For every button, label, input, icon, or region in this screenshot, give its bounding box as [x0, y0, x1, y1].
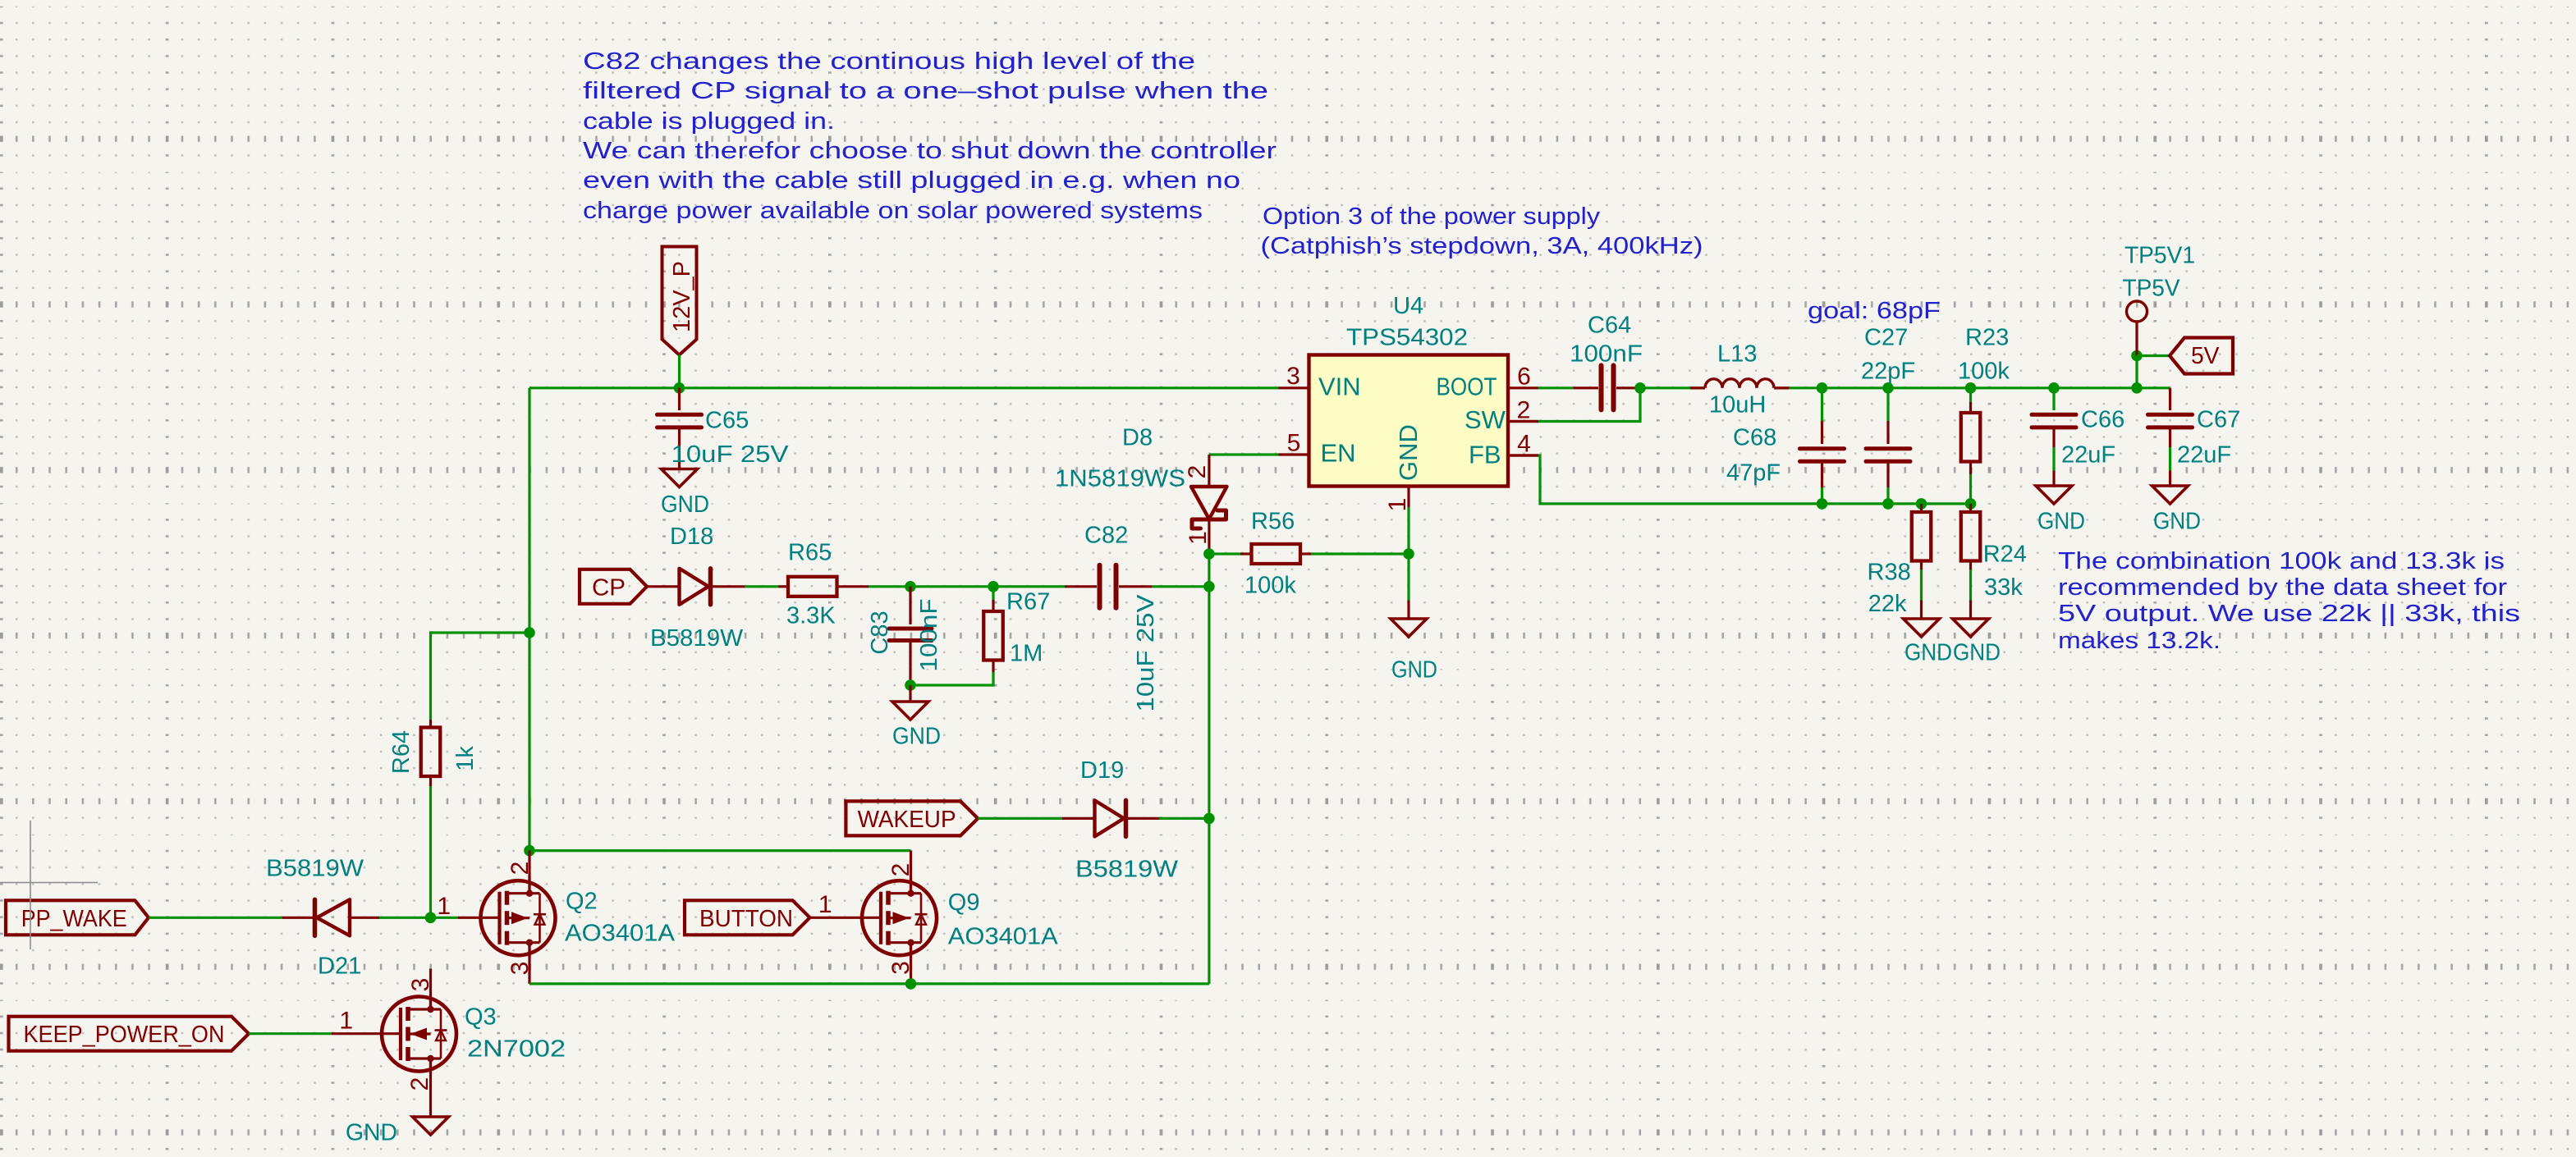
- wire BOOT: [1538, 386, 1573, 389]
- pin 2 Q3: [406, 1077, 433, 1091]
- svg-text:1: 1: [1185, 531, 1212, 545]
- svg-text:cable is plugged in.: cable is plugged in.: [583, 108, 835, 135]
- resistor R65: [779, 577, 869, 597]
- svg-text:R64: R64: [388, 730, 415, 774]
- junction C27 bottom: [1882, 498, 1894, 510]
- svg-text:B5819W: B5819W: [1075, 857, 1179, 883]
- svg-text:VIN: VIN: [1318, 373, 1361, 401]
- svg-text:B5819W: B5819W: [266, 856, 364, 882]
- note: option 3 power supply: [1261, 204, 1703, 259]
- svg-text:GND: GND: [1394, 424, 1423, 481]
- label D19: [1080, 757, 1124, 784]
- svg-text:C82 changes the continous high: C82 changes the continous high level of …: [583, 48, 1195, 75]
- wire 5V rail: [1822, 386, 2170, 389]
- pin EN: [1279, 430, 1356, 468]
- label C83 value: [916, 599, 942, 672]
- wire R64-gate node: [429, 786, 432, 917]
- ground Q3: [346, 1117, 449, 1146]
- svg-text:R65: R65: [788, 540, 832, 566]
- junction EN node: [1203, 581, 1215, 592]
- svg-text:2: 2: [406, 1077, 433, 1091]
- pin GND U4: [1384, 424, 1423, 511]
- svg-text:even with the cable still plug: even with the cable still plugged in e.g…: [583, 167, 1240, 194]
- svg-text:100k: 100k: [1244, 573, 1296, 599]
- label Q3 value: [467, 1036, 566, 1063]
- hier label KEEP_POWER_ON: [9, 1017, 250, 1051]
- label R67: [1006, 589, 1050, 615]
- wire R64 branch: [431, 633, 530, 720]
- label Q2: [566, 889, 598, 915]
- svg-text:Q2: Q2: [566, 889, 598, 915]
- svg-text:Q3: Q3: [465, 1004, 497, 1031]
- svg-text:R56: R56: [1251, 509, 1295, 535]
- wire left drop: [528, 388, 530, 851]
- svg-text:TPS54302: TPS54302: [1346, 325, 1468, 351]
- junction C83 gnd: [905, 679, 916, 691]
- pin 1 D8: [1185, 531, 1212, 545]
- junction R64 branch: [524, 627, 535, 638]
- label U4 value: [1346, 325, 1468, 351]
- junction C66 top: [2048, 382, 2060, 394]
- svg-text:1: 1: [1384, 498, 1411, 512]
- svg-text:C68: C68: [1733, 425, 1776, 451]
- pin 2 D8: [1184, 465, 1211, 479]
- label L13: [1717, 341, 1757, 368]
- label C67: [2197, 407, 2240, 433]
- testpoint TP5V1: [2127, 301, 2147, 356]
- junction D8-R56: [1203, 548, 1215, 560]
- svg-text:C82: C82: [1084, 523, 1128, 549]
- label C82: [1084, 523, 1128, 549]
- svg-text:GND: GND: [1953, 640, 2001, 666]
- label R56: [1251, 509, 1295, 535]
- diode D8 1N5819WS: [1191, 455, 1227, 554]
- capacitor C65: [658, 388, 702, 469]
- hier label WAKEUP: [846, 801, 978, 835]
- svg-text:D8: D8: [1122, 425, 1153, 451]
- svg-text:L13: L13: [1717, 341, 1757, 368]
- wire 5V label: [2137, 354, 2170, 357]
- label C68: [1733, 425, 1776, 451]
- svg-text:2: 2: [506, 862, 534, 876]
- ground R38: [1904, 619, 1953, 666]
- svg-text:SW: SW: [1464, 405, 1506, 434]
- resistor R23: [1961, 388, 1981, 504]
- label C64: [1588, 313, 1631, 339]
- wire VIN rail: [529, 386, 1279, 389]
- label U4: [1393, 293, 1423, 319]
- svg-text:C83: C83: [867, 611, 893, 654]
- pin BOOT: [1437, 364, 1539, 401]
- label R23: [1965, 325, 2009, 351]
- junction C27 top: [1882, 382, 1894, 394]
- svg-text:(Catphish’s stepdown, 3A, 400k: (Catphish’s stepdown, 3A, 400kHz): [1261, 233, 1703, 259]
- svg-text:BOOT: BOOT: [1437, 373, 1497, 401]
- svg-text:22uF: 22uF: [2177, 442, 2231, 469]
- junction R23 bottom: [1965, 498, 1977, 510]
- label Q2 value: [565, 921, 676, 947]
- resistor R67: [910, 587, 1003, 685]
- capacitor C67: [2148, 388, 2193, 471]
- junction Q2 drain: [524, 845, 535, 857]
- svg-text:100k: 100k: [1958, 359, 2010, 385]
- svg-text:KEEP_POWER_ON: KEEP_POWER_ON: [24, 1022, 225, 1048]
- svg-text:3: 3: [1286, 363, 1300, 390]
- svg-text:FB: FB: [1469, 441, 1501, 469]
- svg-text:GND: GND: [661, 492, 709, 518]
- svg-text:3: 3: [887, 961, 914, 975]
- resistor R64: [421, 720, 441, 786]
- svg-text:5V output. We use 22k || 33k,: 5V output. We use 22k || 33k, this: [2058, 601, 2520, 627]
- svg-text:3: 3: [407, 978, 434, 992]
- svg-text:5: 5: [1287, 430, 1301, 457]
- svg-text:C27: C27: [1864, 325, 1908, 351]
- label C65 value: [672, 441, 790, 468]
- svg-text:3: 3: [506, 962, 534, 976]
- svg-text:1k: 1k: [452, 746, 479, 771]
- resistor R56: [1209, 544, 1409, 564]
- svg-text:10uH: 10uH: [1709, 392, 1766, 418]
- svg-text:C65: C65: [705, 408, 749, 434]
- pin 1 Q3: [339, 1008, 353, 1035]
- label C67 value: [2177, 442, 2231, 469]
- svg-text:2N7002: 2N7002: [467, 1036, 566, 1063]
- svg-text:R67: R67: [1006, 589, 1050, 615]
- svg-text:B5819W: B5819W: [650, 625, 744, 652]
- svg-text:WAKEUP: WAKEUP: [858, 807, 956, 833]
- svg-text:D21: D21: [318, 953, 361, 980]
- junction R23 top: [1965, 382, 1977, 394]
- ground R24: [1953, 619, 2001, 666]
- wire L13 out: [1789, 386, 1822, 389]
- label R24 value: [1984, 574, 2023, 601]
- label D18 value: [650, 625, 744, 652]
- capacitor C68: [1800, 388, 1845, 504]
- label D19 value: [1075, 857, 1179, 883]
- wire Q2 top: [529, 849, 911, 852]
- diode D18: [647, 569, 745, 605]
- diode D19: [1062, 800, 1159, 836]
- wire WAKEUP: [978, 817, 1062, 820]
- wire D18-R65: [745, 585, 779, 588]
- wire FB net: [1508, 455, 1971, 504]
- label C83: [867, 611, 893, 654]
- label R38: [1868, 560, 1911, 586]
- hier label 5V: [2170, 338, 2233, 374]
- label D8 value: [1055, 466, 1185, 492]
- transistor Q9 AO3401A: [810, 851, 937, 984]
- note: C82 comment block: [583, 48, 1277, 224]
- svg-text:3.3K: 3.3K: [786, 603, 836, 629]
- label C64 value: [1570, 341, 1643, 368]
- origin crosshair: [0, 821, 98, 949]
- svg-text:GND: GND: [892, 724, 941, 750]
- svg-text:U4: U4: [1393, 293, 1423, 319]
- junction BOOT-SW: [1634, 382, 1646, 394]
- svg-text:TP5V: TP5V: [2123, 276, 2181, 302]
- svg-text:D18: D18: [670, 524, 713, 550]
- diode D21: [282, 899, 379, 935]
- svg-text:100nF: 100nF: [916, 599, 942, 672]
- note: divider recommendation: [2058, 548, 2520, 654]
- svg-text:C64: C64: [1588, 313, 1631, 339]
- svg-text:GND: GND: [2153, 509, 2201, 535]
- transistor Q2 AO3401A: [431, 851, 556, 984]
- svg-text:1: 1: [818, 891, 832, 918]
- hier label BUTTON: [685, 900, 810, 935]
- pin 1 Q9: [818, 891, 832, 918]
- junction R67 tap: [988, 581, 999, 592]
- svg-text:GND: GND: [1391, 657, 1437, 684]
- wire EN drop: [1208, 587, 1210, 984]
- pin 2 Q2: [506, 862, 534, 876]
- resistor R38: [1912, 504, 1932, 619]
- wire 12V_P stem: [678, 355, 681, 388]
- wire node drop: [1208, 554, 1210, 587]
- junction R38 top: [1916, 498, 1927, 510]
- capacitor C64: [1573, 365, 1636, 409]
- svg-text:R23: R23: [1965, 325, 2009, 351]
- label TP5V1: [2125, 243, 2195, 269]
- label C66 value: [2061, 442, 2115, 469]
- label R23 value: [1958, 359, 2010, 385]
- label C66: [2081, 407, 2125, 433]
- svg-text:Q9: Q9: [948, 889, 980, 916]
- label D8: [1122, 425, 1153, 451]
- svg-text:BUTTON: BUTTON: [699, 906, 793, 932]
- wire 5V tap: [2135, 356, 2138, 388]
- label D18: [670, 524, 713, 550]
- wire U4 gnd: [1407, 507, 1409, 554]
- wire R65-C82: [869, 585, 1065, 588]
- svg-text:5V: 5V: [2191, 343, 2220, 369]
- pin FB: [1469, 431, 1538, 469]
- label Q9 value: [948, 924, 1059, 950]
- wire to L13: [1636, 386, 1690, 389]
- svg-text:PP_WAKE: PP_WAKE: [21, 906, 127, 932]
- svg-text:GND: GND: [2037, 509, 2085, 535]
- svg-text:AO3401A: AO3401A: [948, 924, 1059, 950]
- power flag 12V_P: [662, 247, 697, 355]
- svg-text:1N5819WS: 1N5819WS: [1055, 466, 1185, 492]
- ground C66: [2036, 471, 2085, 535]
- label C65: [705, 408, 749, 434]
- ground C65: [661, 469, 709, 519]
- ic U4 body: [1309, 355, 1509, 487]
- svg-text:22uF: 22uF: [2061, 442, 2115, 469]
- pin 3 Q3: [407, 978, 434, 992]
- junction L13 out: [1817, 382, 1828, 394]
- svg-text:C66: C66: [2081, 407, 2125, 433]
- svg-text:2: 2: [887, 863, 914, 877]
- inductor L13: [1690, 379, 1789, 388]
- wire PP_WAKE: [149, 917, 282, 919]
- wire EN: [1209, 453, 1279, 455]
- junction C83 tap: [905, 581, 916, 592]
- label C27: [1864, 325, 1908, 351]
- svg-text:CP: CP: [592, 574, 626, 601]
- capacitor C82: [1065, 565, 1152, 608]
- transistor Q3 2N7002: [332, 969, 456, 1118]
- junction 12V_P rail: [674, 382, 685, 394]
- svg-text:33k: 33k: [1984, 574, 2023, 601]
- hier label PP_WAKE: [6, 900, 149, 935]
- svg-text:TP5V1: TP5V1: [2125, 243, 2195, 269]
- capacitor C27: [1866, 388, 1910, 504]
- svg-text:22k: 22k: [1868, 591, 1907, 617]
- pin 3 Q9: [887, 961, 914, 975]
- svg-text:47pF: 47pF: [1726, 460, 1781, 487]
- label Q9: [948, 889, 980, 916]
- ground C83: [892, 685, 941, 750]
- junction D19 node: [1203, 813, 1215, 825]
- svg-text:2: 2: [1184, 465, 1211, 479]
- label R65: [788, 540, 832, 566]
- label C68 value: [1726, 460, 1781, 487]
- label D21: [318, 953, 361, 980]
- label D21 value: [266, 856, 364, 882]
- svg-text:2: 2: [1517, 397, 1531, 424]
- wire D19-node: [1159, 817, 1209, 820]
- svg-text:1: 1: [437, 893, 451, 920]
- junction 5V tap: [2131, 382, 2143, 394]
- svg-text:The combination 100k and 13.3k: The combination 100k and 13.3k is: [2058, 548, 2505, 574]
- svg-text:makes 13.2k.: makes 13.2k.: [2058, 628, 2221, 654]
- wire SW: [1508, 388, 1640, 422]
- wire D21-node: [379, 917, 431, 919]
- label R67 value: [1010, 641, 1043, 667]
- svg-text:D19: D19: [1080, 757, 1124, 784]
- svg-text:recommended by the data sheet: recommended by the data sheet for: [2058, 574, 2507, 601]
- label R64: [388, 730, 415, 774]
- pin 3 Q2: [506, 962, 534, 976]
- label R24: [1983, 542, 2027, 568]
- note: goal 68pF: [1808, 298, 1941, 324]
- junction C68 bottom: [1817, 498, 1828, 510]
- svg-text:GND: GND: [1904, 640, 1952, 666]
- junction gate node: [425, 912, 437, 924]
- wire C82-node: [1152, 585, 1209, 588]
- capacitor C66: [2032, 388, 2076, 471]
- svg-text:4: 4: [1517, 431, 1531, 458]
- svg-text:10uF 25V: 10uF 25V: [1133, 594, 1159, 712]
- wire KEEP_POWER_ON: [249, 1032, 332, 1035]
- svg-text:charge power available on sola: charge power available on solar powered …: [583, 198, 1203, 224]
- svg-text:12V_P: 12V_P: [669, 261, 695, 332]
- junction TP: [2131, 350, 2143, 362]
- junction Q9 source: [905, 978, 917, 990]
- svg-text:1M: 1M: [1010, 641, 1043, 667]
- svg-text:Option 3 of the power supply: Option 3 of the power supply: [1263, 204, 1601, 230]
- svg-text:10uF 25V: 10uF 25V: [672, 441, 790, 468]
- wire source rail: [529, 982, 1209, 985]
- svg-text:EN: EN: [1321, 439, 1356, 468]
- label R56 value: [1244, 573, 1296, 599]
- label R65 value: [786, 603, 836, 629]
- svg-text:1: 1: [339, 1008, 353, 1035]
- label TP5V: [2123, 276, 2181, 302]
- pin 2 Q9: [887, 863, 914, 877]
- svg-text:100nF: 100nF: [1570, 341, 1643, 368]
- svg-text:AO3401A: AO3401A: [565, 921, 676, 947]
- junction U4 gnd: [1403, 548, 1414, 560]
- label R64 value: [452, 746, 479, 771]
- svg-text:R38: R38: [1868, 560, 1911, 586]
- capacitor C83: [889, 587, 932, 685]
- pin 1 Q2: [437, 893, 451, 920]
- pin SW: [1464, 397, 1538, 434]
- ground C67: [2152, 471, 2202, 535]
- svg-text:22pF: 22pF: [1861, 359, 1915, 385]
- svg-text:We can therefor choose to shut: We can therefor choose to shut down the …: [583, 138, 1277, 164]
- label C82 value: [1133, 594, 1159, 712]
- svg-text:filtered CP signal to a one–sh: filtered CP signal to a one–shot pulse w…: [583, 78, 1268, 104]
- label Q3: [465, 1004, 497, 1031]
- resistor R24: [1961, 504, 1981, 619]
- svg-text:GND: GND: [346, 1120, 397, 1146]
- svg-text:R24: R24: [1983, 542, 2027, 568]
- svg-text:goal: 68pF: goal: 68pF: [1808, 298, 1941, 324]
- label C27 value: [1861, 359, 1915, 385]
- svg-text:6: 6: [1517, 364, 1531, 391]
- label L13 value: [1709, 392, 1766, 418]
- svg-text:C67: C67: [2197, 407, 2240, 433]
- pin VIN: [1279, 363, 1361, 401]
- label R38 value: [1868, 591, 1907, 617]
- hier label CP: [580, 569, 647, 604]
- ground U4: [1391, 554, 1437, 684]
